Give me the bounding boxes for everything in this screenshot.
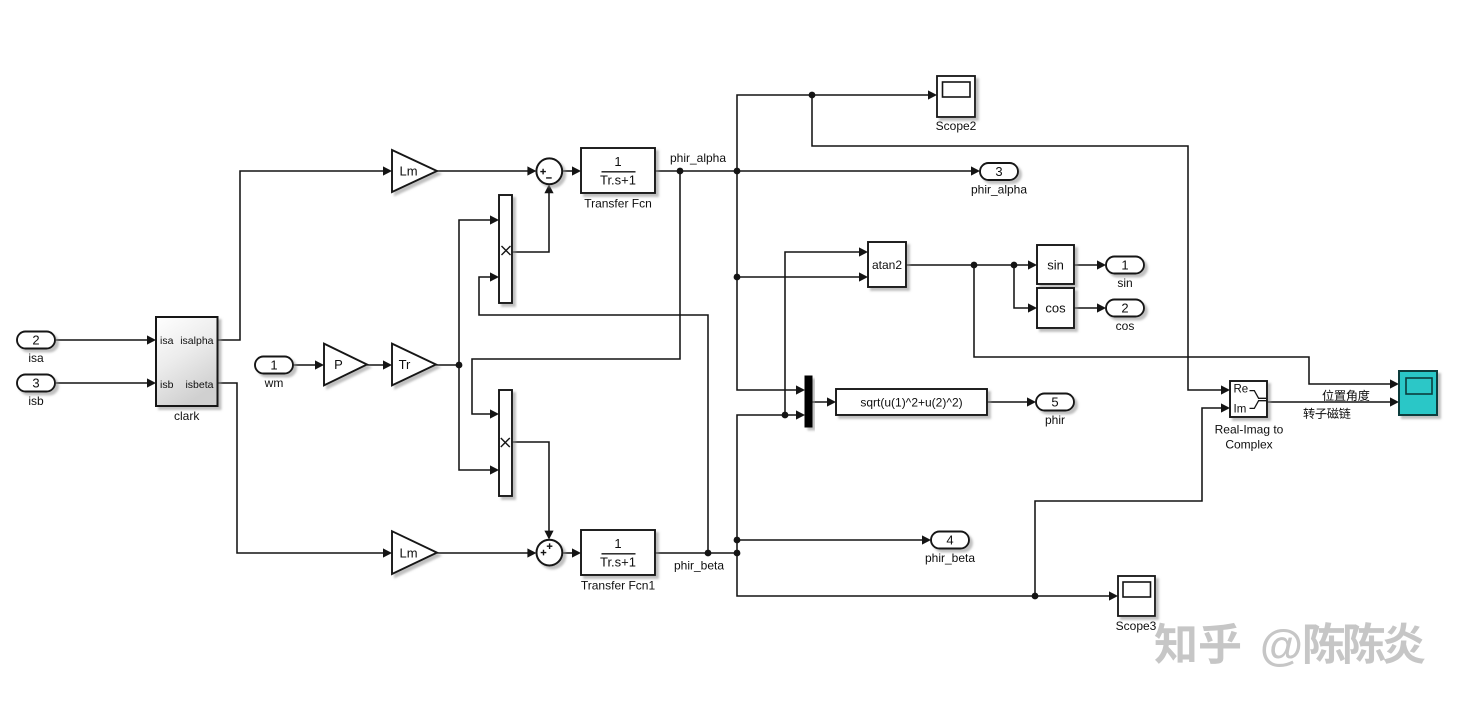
junction atan2 node b [1011,262,1018,269]
svg-text:sin: sin [1047,258,1064,273]
arrowhead port5 in [1027,397,1036,406]
arrowhead TF1 in [572,548,581,557]
svg-text:Tr.s+1: Tr.s+1 [600,173,636,188]
arrowhead scope in1 [1390,379,1399,388]
arrowhead isa in [147,335,156,344]
svg-text:2: 2 [32,333,39,348]
scope3 [1116,576,1157,633]
arrowhead product1 in2 [490,272,499,281]
arrowhead sqrt in [827,397,836,406]
svg-text:3: 3 [995,164,1002,179]
svg-text:sin: sin [1117,276,1132,290]
arrowhead scope in2 [1390,397,1399,406]
arrowhead mux in2 [796,410,805,419]
outport 5 phir [1036,394,1074,428]
transfer fcn1 [581,530,656,593]
arrowhead Re in [1221,385,1230,394]
junction phir_alpha node a [677,168,684,175]
svg-text:cos: cos [1116,319,1135,333]
product1 X [499,195,512,303]
svg-text:3: 3 [32,376,39,391]
svg-text:Real-Imag to: Real-Imag to [1215,423,1284,437]
wire isa to clark [56,339,150,341]
watermark zhihu @chenchenyan [1155,621,1425,670]
junction phir_beta node a [705,550,712,557]
arrowhead Sum in [527,166,536,175]
wire phir_beta to atan2 in1 [785,252,862,415]
wire phir_alpha feedback to product2 [472,171,680,414]
svg-text:P: P [334,357,343,372]
teal scope [1399,371,1437,415]
svg-text:@: @ [1260,621,1303,670]
junction phir_alpha node d [734,274,741,281]
svg-text:4: 4 [946,533,953,548]
wire sqrt to port5 [987,401,1030,403]
svg-text:Transfer Fcn1: Transfer Fcn1 [581,579,656,593]
wire Sum1 to Transfer Fcn1 [562,552,575,554]
svg-text:isb: isb [160,379,174,391]
svg-text:Im: Im [1234,404,1247,416]
wire phir_alpha up to Scope2 [737,95,930,171]
arrowhead P in [315,360,324,369]
arrowhead sin in [1028,260,1037,269]
gain Tr [392,344,436,386]
gain Lm [392,150,437,192]
svg-text:1: 1 [614,154,621,169]
arrowhead port4 in [922,535,931,544]
wire cos to port2 [1074,307,1100,309]
cos block [1037,288,1074,328]
wire Im feed [1035,408,1224,596]
arrowhead Sum1 in [527,548,536,557]
outport 1 sin [1106,257,1144,291]
svg-text:atan2: atan2 [872,258,902,272]
svg-text:wm: wm [264,376,284,390]
svg-text:Transfer Fcn: Transfer Fcn [584,197,652,211]
signal label weizhi jiaodu [1322,390,1333,401]
product2 X [499,390,512,496]
wire clark isbeta to Lm1 [218,383,387,553]
svg-text:Complex: Complex [1225,438,1272,452]
arrowhead port2 in [1097,303,1106,312]
junction phir_alpha node b [734,168,741,175]
svg-text:2: 2 [1121,301,1128,316]
svg-text:clark: clark [174,409,200,423]
arrowhead Im in [1221,403,1230,412]
wire phir_beta to port4 [737,539,925,541]
wire phir_beta down to Scope3 [737,553,1112,596]
svg-text:phir_alpha: phir_alpha [670,151,726,165]
scope2 [936,76,977,133]
sqrt fcn block [836,389,987,415]
wire phir_alpha down to mux [737,171,799,390]
arrowhead Sum1 in2 [544,531,553,540]
transfer fcn [581,148,655,211]
junction Tr node [456,362,463,369]
junction phir_beta node d [782,412,789,419]
wire wm to P [293,364,318,366]
wire P to Tr [367,364,386,366]
wire atan2 to scope top [974,265,1393,384]
wire product1 to Sum [512,191,549,252]
svg-text:Tr: Tr [399,357,411,372]
junction phir_beta node b [734,550,741,557]
inport 3 isb [17,375,55,409]
gain Lm1 [392,531,437,574]
svg-text:phir_beta: phir_beta [674,559,724,573]
mux [805,376,812,427]
arrowhead Sum in2 [544,184,553,193]
real-imag to complex block [1215,381,1284,452]
wire Tr to product1 in1 [459,220,493,365]
arrowhead port1 in [1097,260,1106,269]
svg-text:phir: phir [1045,413,1065,427]
outport 2 cos [1106,300,1144,334]
arrowhead Lm in [383,166,392,175]
svg-text:1: 1 [1121,258,1128,273]
arrowhead TF in [572,166,581,175]
svg-text:cos: cos [1045,301,1066,316]
wire Tr out [436,364,459,366]
signal label zhuanzi cilian [1303,408,1314,419]
svg-text:isa: isa [28,351,44,365]
svg-text:Scope2: Scope2 [936,119,977,133]
arrowhead cos in [1028,303,1037,312]
wire phir_beta up to mux [737,415,799,553]
junction phir_beta node e [1032,593,1039,600]
wire product2 to Sum1 [512,442,549,533]
arrowhead Scope3 in [1109,591,1118,600]
svg-text:5: 5 [1051,395,1058,410]
junction atan2 node a [971,262,978,269]
gain P [324,344,367,386]
arrowhead Tr in [383,360,392,369]
wire clark isalpha to Lm [218,171,387,340]
wire Lm1 to Sum1 [437,552,530,554]
svg-text:isbeta: isbeta [185,379,213,391]
arrowhead product1 in1 [490,215,499,224]
sin block [1037,245,1074,284]
wire Scope2 branch to Re [812,95,1224,390]
svg-text:1: 1 [270,358,277,373]
sum block (beta) [537,540,563,566]
wire phir_alpha to atan2 in2 [737,276,862,278]
svg-text:Scope3: Scope3 [1116,619,1157,633]
wire isb to clark [56,382,150,384]
arrowhead Scope2 in [928,90,937,99]
svg-text:isalpha: isalpha [180,335,213,347]
wire Tr to product2 in2 [459,365,493,470]
wire mux to sqrt [812,401,830,403]
arrowhead Lm1 in [383,548,392,557]
wire Sum to Transfer Fcn [562,170,575,172]
svg-text:Lm: Lm [399,545,417,560]
junction phir_alpha node c [809,92,816,99]
svg-text:phir_beta: phir_beta [925,551,975,565]
inport 1 wm [255,357,293,391]
svg-text:1: 1 [614,536,621,551]
arrowhead product2 in1 [490,409,499,418]
svg-text:Tr.s+1: Tr.s+1 [600,555,636,570]
wire Transfer Fcn to phir_alpha port [655,170,974,172]
wire atan2 to sin [906,264,1031,266]
arrowhead atan2 in1 [859,247,868,256]
outport 3 phir_alpha [971,163,1027,197]
arrowhead port3 in [971,166,980,175]
svg-text:phir_alpha: phir_alpha [971,183,1027,197]
arrowhead isb in [147,378,156,387]
svg-text:Re: Re [1234,383,1249,395]
arrowhead mux in1 [796,385,805,394]
wire Transfer Fcn1 out [655,552,737,554]
wire ReIm out to scope [1267,401,1393,403]
wire phir_beta feedback to product1 [479,277,708,553]
arrowhead product2 in2 [490,465,499,474]
atan2 block [868,242,906,287]
wire Lm to Sum [437,170,530,172]
sum block (alpha) [536,158,562,184]
svg-text:Lm: Lm [399,164,417,179]
junction phir_beta node c [734,537,741,544]
svg-text:sqrt(u(1)^2+u(2)^2): sqrt(u(1)^2+u(2)^2) [860,396,962,410]
wire sin to port1 [1074,264,1100,266]
subsystem clark [156,317,218,423]
svg-text:isa: isa [160,335,174,347]
svg-text:isb: isb [28,394,44,408]
wire atan2 branch to cos [1014,265,1031,308]
outport 4 phir_beta [925,532,975,566]
arrowhead atan2 in2 [859,272,868,281]
inport 2 isa [17,332,55,366]
